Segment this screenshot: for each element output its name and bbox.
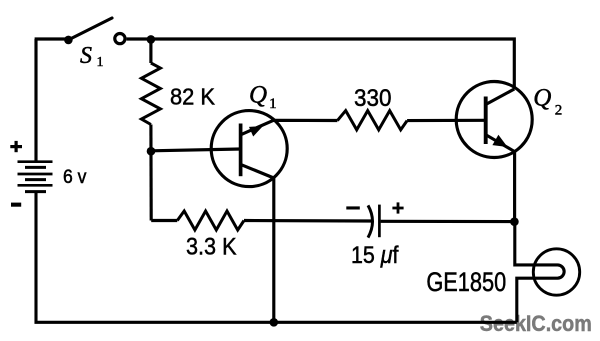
svg-text:6 v: 6 v <box>63 167 87 188</box>
svg-text:330: 330 <box>354 85 392 112</box>
svg-text:3.3 K: 3.3 K <box>186 234 237 261</box>
svg-text:15 μf: 15 μf <box>351 242 399 269</box>
svg-text:GE1850: GE1850 <box>426 267 506 297</box>
svg-text:82 K: 82 K <box>170 84 216 110</box>
